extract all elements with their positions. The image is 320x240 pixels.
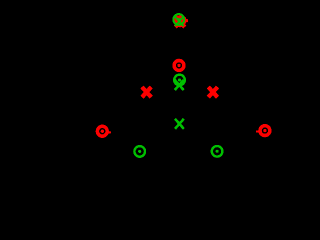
top composite: red X marker — [175, 17, 185, 27]
bottom-left green O marker — [134, 146, 145, 157]
center green O marker — [174, 75, 185, 86]
right red O nub — [256, 130, 258, 132]
bottom-right green O marker — [212, 146, 223, 157]
left red O nub — [109, 131, 111, 133]
left red X marker — [142, 87, 151, 97]
right red X marker — [208, 87, 217, 97]
top composite: red O right rim — [185, 19, 188, 22]
left red O marker — [97, 126, 107, 136]
top composite: red O marker (reads as filled disc) — [174, 15, 186, 27]
top composite: green X marker — [175, 17, 183, 27]
center red O marker — [174, 61, 184, 71]
center green X marker (overlapping O) — [175, 80, 184, 90]
top composite: green O marker — [173, 14, 184, 25]
lower green X marker — [175, 119, 184, 129]
right red O marker — [260, 126, 270, 136]
